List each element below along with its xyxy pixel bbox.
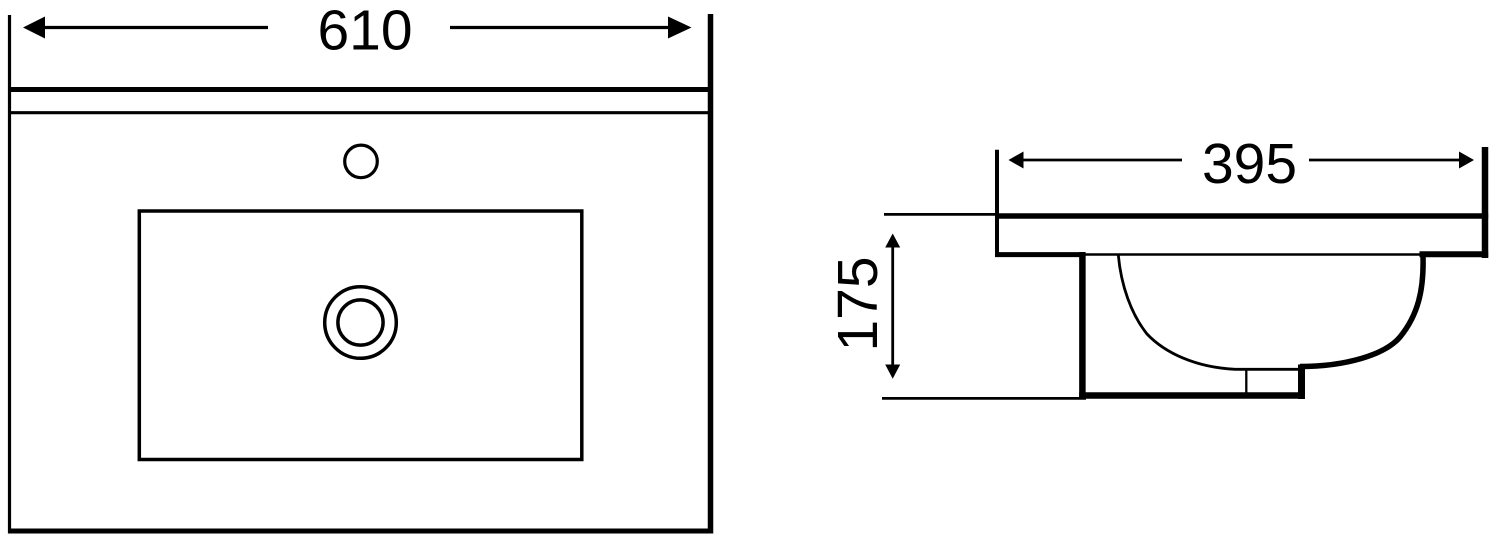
svg-text:395: 395	[1202, 132, 1297, 196]
top view: basin inner rectangle	[139, 211, 582, 460]
side view: basin outer left wall	[1079, 252, 1086, 399]
dimension 610: dimension line right segment	[450, 26, 675, 29]
dimension 175: bottom arrowhead	[885, 365, 900, 379]
side view: rim underside right shoulder	[1420, 251, 1489, 257]
side view: rim right edge / extension line	[1482, 147, 1489, 258]
top view: drain inner ring	[338, 300, 383, 345]
top view: bottom edge line	[8, 529, 713, 534]
dimension 610: dimension line left segment	[40, 26, 268, 29]
side view: basin bottom thick line	[1079, 392, 1303, 399]
dimension 175: dimension line	[891, 242, 894, 370]
side view: rim left edge / extension line	[995, 150, 999, 257]
dimension 395: left arrowhead	[1009, 152, 1024, 169]
svg-text:175: 175	[826, 256, 890, 351]
dimension 610: right arrowhead	[668, 17, 692, 39]
dimension 395: dimension line right segment	[1309, 159, 1462, 162]
side view: drain step vertical line	[1298, 365, 1305, 400]
top view: left extension line / basin left edge	[8, 15, 11, 534]
svg-text:610: 610	[317, 0, 412, 63]
dimension 175: top arrowhead	[885, 234, 900, 248]
side view: bottom reference line	[882, 397, 1086, 400]
side view: top reference line	[884, 213, 999, 216]
top view: right extension line / basin right edge	[708, 14, 714, 534]
dimension 395: dimension line left segment	[1020, 159, 1182, 162]
side view: rim underside thin line	[1085, 253, 1424, 256]
side view: basin outer right curved wall	[1300, 256, 1423, 367]
dimension 610: left arrowhead	[23, 17, 45, 39]
side view: rim top thick line	[995, 213, 1488, 219]
top view: counter front thick edge line	[8, 87, 713, 92]
side view: drain outlet divider line	[1245, 370, 1247, 394]
side view: rim underside left shoulder	[995, 252, 1086, 257]
top view: faucet hole	[345, 145, 378, 178]
dimension 395: right arrowhead	[1459, 152, 1474, 169]
top view: counter front inner edge line	[8, 111, 713, 114]
side view: bowl inner surface curve	[1118, 255, 1301, 369]
top view: drain outer ring	[325, 287, 397, 359]
